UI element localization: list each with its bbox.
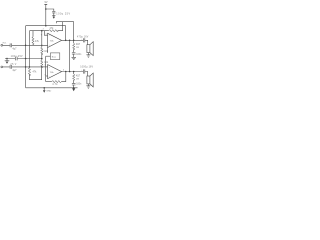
svg-text:1000µ 16V: 1000µ 16V xyxy=(80,67,93,69)
svg-text:1W: 1W xyxy=(76,79,79,81)
wire zobel2 R to C xyxy=(73,80,75,83)
capacitor C2 4u7 xyxy=(10,65,17,72)
capacitor C4 100n xyxy=(72,53,82,56)
wire left rail vertical xyxy=(25,26,27,88)
node out2-a xyxy=(65,71,67,73)
svg-text:100n: 100n xyxy=(76,54,82,56)
svg-text:Bias: Bias xyxy=(52,57,57,59)
wire to speaker1 xyxy=(85,40,88,44)
wire V+ vertical xyxy=(45,5,47,26)
bias box xyxy=(50,53,59,60)
svg-text:6: 6 xyxy=(45,64,47,66)
svg-text:4.7k: 4.7k xyxy=(52,83,58,86)
capacitor C5 100n xyxy=(72,83,82,85)
capacitor C8 470u (output 2) xyxy=(80,67,93,74)
svg-text:1W: 1W xyxy=(76,47,79,49)
node fb1-mid xyxy=(41,30,43,32)
node bridge-out1 xyxy=(69,40,71,42)
wire bias stub xyxy=(46,55,51,57)
wire fb2 left xyxy=(46,81,52,83)
wire mid chain xyxy=(41,31,43,48)
wire -in2 stub xyxy=(46,75,48,77)
svg-text:47k: 47k xyxy=(33,71,38,74)
wire bypass y58.5 xyxy=(5,58,42,60)
op-amp U1a xyxy=(48,33,62,47)
resistor R5 xyxy=(41,47,49,55)
ground (zobel1) xyxy=(72,57,77,59)
wire triangle1 to bias box xyxy=(47,48,49,53)
pin numbers U1b xyxy=(45,64,65,76)
wire zobel2 C to rail xyxy=(73,85,75,88)
resistor R3 47k (feedback 2) xyxy=(52,81,62,87)
ground (speaker2) xyxy=(86,84,90,88)
wire R5 to R6 xyxy=(41,54,43,60)
node bridge-out2 xyxy=(69,71,71,73)
svg-text:9V: 9V xyxy=(45,1,48,4)
resistor R1 47k (upper mid) xyxy=(32,37,40,45)
wire feedback line 1 xyxy=(30,30,63,32)
node mid-bypass xyxy=(41,58,43,60)
op-amp U1b xyxy=(48,65,62,79)
svg-text:47k: 47k xyxy=(35,40,40,43)
svg-text:25 V: 25 V xyxy=(10,64,16,66)
svg-text:4Ω7: 4Ω7 xyxy=(76,44,81,46)
ground (bypass) xyxy=(5,59,10,64)
resistor R2 47k (feedback 1) xyxy=(49,27,59,32)
svg-text:10k: 10k xyxy=(44,50,49,53)
node fbdrop-input2 xyxy=(29,66,30,67)
input 1 terminal xyxy=(1,44,3,46)
resistor R4 (left lower) xyxy=(28,68,30,76)
power V+ terminal xyxy=(44,1,47,5)
wire right drop to output1 xyxy=(65,26,67,41)
wire -in1 stub xyxy=(45,31,48,36)
svg-text:+: + xyxy=(49,67,51,69)
wire cap to ground xyxy=(53,13,55,15)
capacitor C3 100u xyxy=(10,56,23,66)
svg-text:100µ 25V: 100µ 25V xyxy=(56,13,70,16)
wire supply rail xyxy=(26,25,66,27)
wire bias vertical xyxy=(45,56,47,81)
wire zobel1 R to C xyxy=(73,49,75,52)
node input1-rail xyxy=(25,45,27,47)
node bypass-gnd xyxy=(6,58,7,59)
wire +in2 stub xyxy=(42,66,48,68)
node mid-input1 xyxy=(41,45,42,46)
svg-text:IN 1: IN 1 xyxy=(3,42,8,44)
wire fb1 upper loop xyxy=(56,22,73,41)
svg-text:TDA: TDA xyxy=(50,40,55,43)
node rail-power xyxy=(45,25,47,27)
node out1-b xyxy=(73,40,75,42)
wire output1 xyxy=(62,39,84,41)
svg-text:4µ7: 4µ7 xyxy=(12,69,17,72)
ground (speaker1) xyxy=(86,53,90,58)
node input2-rail xyxy=(25,66,27,68)
input 2 terminal xyxy=(1,66,3,68)
node mid-input2 xyxy=(41,66,42,67)
wire to speaker2 xyxy=(85,72,88,77)
svg-text:4µ7: 4µ7 xyxy=(12,48,17,51)
svg-text:100µ 25V: 100µ 25V xyxy=(11,56,23,58)
svg-text:GND: GND xyxy=(46,91,51,93)
speaker LS1 xyxy=(87,42,93,56)
node supply junction xyxy=(45,8,47,10)
svg-text:470µ 16V: 470µ 16V xyxy=(77,37,89,39)
svg-text:47k: 47k xyxy=(50,27,55,30)
wire input1 xyxy=(3,44,48,46)
ground (supply cap) xyxy=(52,15,55,18)
Zobel 2: resistor 4R7 xyxy=(73,72,81,81)
pin numbers U1a xyxy=(41,28,48,52)
wire bottom rail xyxy=(26,87,78,89)
wire lower loop xyxy=(30,67,42,80)
node bypass-rail xyxy=(25,58,27,60)
capacitor C7 470u (output 1) xyxy=(77,37,89,43)
resistor R6 xyxy=(41,60,49,68)
speaker LS2 xyxy=(87,73,93,87)
ground arrow (bottom rail) xyxy=(43,88,52,93)
wire bridge out1-out2 xyxy=(69,40,71,71)
ground (rail right) xyxy=(73,88,75,91)
svg-text:TDA: TDA xyxy=(50,71,55,74)
wire left fb drop xyxy=(29,31,31,68)
wire fb2 loop xyxy=(62,72,66,82)
Zobel 1: resistor 4R7 xyxy=(73,40,81,50)
svg-text:4Ω7: 4Ω7 xyxy=(76,76,81,78)
wire zobel1 C to ground xyxy=(73,54,75,57)
node rail-arrow xyxy=(43,87,45,89)
capacitor C6 100u xyxy=(52,11,70,15)
node zobel2-rail xyxy=(73,87,75,89)
svg-text:100n: 100n xyxy=(76,84,82,86)
wire decoupling branch xyxy=(46,9,54,11)
node out1-a xyxy=(65,40,67,42)
svg-text:−: − xyxy=(49,36,51,38)
svg-text:2: 2 xyxy=(43,28,45,30)
capacitor C1 4u7 xyxy=(10,43,17,50)
node out2-b xyxy=(73,71,75,73)
svg-text:7: 7 xyxy=(41,34,43,36)
wire R1 leads xyxy=(32,31,34,46)
wire output2 xyxy=(62,71,84,73)
wire input2 xyxy=(3,66,42,68)
